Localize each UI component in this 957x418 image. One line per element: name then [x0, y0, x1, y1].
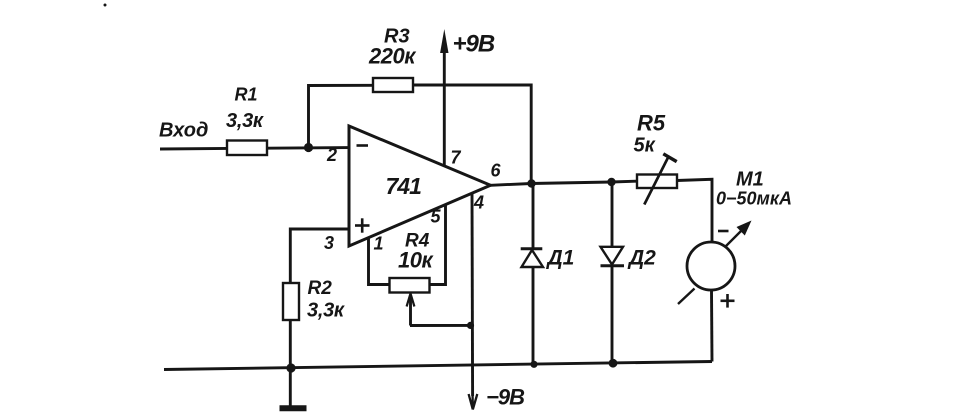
- svg-text:1: 1: [374, 234, 384, 254]
- svg-text:5к: 5к: [634, 135, 656, 157]
- svg-text:6: 6: [491, 161, 502, 181]
- svg-text:7: 7: [451, 148, 462, 168]
- svg-text:R2: R2: [308, 278, 333, 299]
- svg-text:4: 4: [473, 193, 484, 213]
- svg-text:Д1: Д1: [546, 247, 575, 270]
- svg-text:R5: R5: [637, 110, 666, 135]
- svg-text:3,3к: 3,3к: [226, 110, 264, 132]
- svg-text:+9В: +9В: [453, 31, 495, 58]
- svg-text:−9В: −9В: [486, 385, 525, 410]
- svg-text:5: 5: [431, 207, 442, 227]
- svg-text:R1: R1: [235, 84, 258, 104]
- svg-text:741: 741: [386, 173, 422, 199]
- svg-text:Вход: Вход: [159, 120, 208, 142]
- svg-text:3,3к: 3,3к: [307, 300, 345, 322]
- svg-text:220к: 220к: [368, 43, 417, 68]
- svg-text:Д2: Д2: [627, 247, 656, 270]
- svg-text:0−50мкА: 0−50мкА: [716, 189, 792, 209]
- svg-text:М1: М1: [736, 169, 764, 191]
- svg-text:2: 2: [326, 145, 337, 165]
- svg-text:3: 3: [324, 233, 334, 253]
- svg-text:10к: 10к: [398, 248, 434, 273]
